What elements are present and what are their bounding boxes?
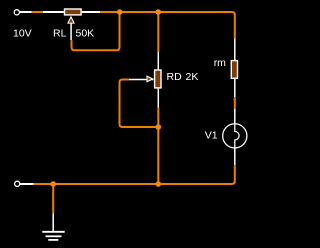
source V1 internal line and sine bump: [235, 124, 239, 148]
wire ground branch orange: [52, 185, 54, 213]
wire rm top lead: [234, 39, 236, 61]
wire top rail orange segment: [32, 11, 43, 13]
wire RD top lead: [157, 52, 159, 70]
node junction ground: [50, 181, 56, 187]
wire RL wiper white stem: [70, 23, 72, 40]
wire RD wiper white lead: [129, 79, 154, 81]
svg-text:50K: 50K: [76, 28, 95, 40]
svg-text:V1: V1: [205, 130, 218, 142]
wire bottom white lead from terminal: [20, 183, 34, 185]
node junction RD wiper: [156, 124, 162, 130]
svg-text:10V: 10V: [13, 28, 32, 40]
wire top rail orange to right corner and down right rail: [100, 12, 235, 39]
wire top rail white lead from terminal: [20, 11, 32, 13]
source V1 circle: [223, 124, 247, 148]
svg-text:2K: 2K: [186, 71, 199, 83]
wire rm bottom lead: [234, 79, 236, 97]
node junction bottom middle: [156, 181, 162, 187]
svg-text:rm: rm: [214, 57, 226, 69]
wire right rail orange segment: [234, 97, 236, 109]
terminal input open circle 10V: [14, 10, 19, 15]
potentiometer RL body: [65, 9, 82, 15]
wire RD bottom lead: [157, 89, 159, 108]
node junction top middle: [156, 9, 162, 15]
wire RD wiper orange loop to node below: [120, 80, 159, 128]
wire middle branch orange down to bottom rail: [157, 108, 159, 185]
svg-text:RD: RD: [167, 71, 183, 83]
terminal output open circle bottom left: [15, 181, 20, 186]
ground symbol: [42, 232, 64, 240]
node junction top left: [117, 9, 123, 15]
wire RL right lead: [82, 11, 100, 13]
wire ground branch white stem: [52, 213, 54, 232]
resistor RD wiper arrow: [147, 76, 153, 82]
resistor RD body: [155, 70, 161, 88]
resistor rm body: [231, 61, 237, 79]
wire V1 top lead: [234, 109, 236, 125]
wire middle branch orange from top node: [157, 12, 159, 52]
potentiometer RL wiper arrow: [68, 17, 74, 23]
wire RL wiper orange loop up to node: [72, 14, 120, 51]
wire right rail orange down to bottom corner and along bottom rail: [34, 165, 235, 184]
svg-text:RL: RL: [53, 28, 67, 40]
wire V1 bottom lead: [234, 148, 236, 165]
wire RL left lead: [43, 11, 64, 13]
